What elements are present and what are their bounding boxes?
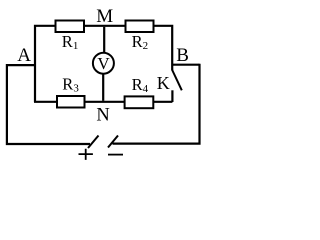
svg-text:R4: R4 <box>132 75 149 95</box>
svg-text:R3: R3 <box>62 75 79 95</box>
wire: R4 to switch contact <box>154 101 173 103</box>
wire: R2 right, corner down to switch pivot <box>154 26 172 71</box>
svg-text:R2: R2 <box>132 32 149 52</box>
battery plus sign <box>79 149 93 160</box>
voltmeter V circle <box>93 53 114 74</box>
svg-text:K: K <box>157 73 170 93</box>
svg-text:M: M <box>96 6 113 27</box>
wire: node A to left outer wire, down and along bottom to battery <box>7 65 90 144</box>
resistor R1 <box>56 21 85 33</box>
resistor R3 <box>57 96 85 108</box>
svg-text:R1: R1 <box>62 32 79 52</box>
svg-text:N: N <box>96 105 109 125</box>
resistor R4 <box>125 96 154 108</box>
battery positive plate (slanted) <box>88 136 99 149</box>
svg-text:V: V <box>97 54 110 73</box>
svg-text:B: B <box>176 45 189 66</box>
wire: right outer vertical and bottom right wire <box>113 64 200 144</box>
wire: left bridge vertical and top wire from A up to R1 <box>35 26 55 102</box>
wire: node B to right side <box>172 64 199 66</box>
wire: bottom of bridge from left corner to R3 <box>34 101 57 103</box>
wire: R3 to R4 through node N <box>85 101 125 103</box>
node N branch wire up to voltmeter <box>102 74 104 101</box>
battery minus sign <box>108 154 123 156</box>
switch K blade (open) <box>172 70 182 90</box>
resistor R2 <box>126 21 154 33</box>
node M branch wire down to voltmeter <box>103 27 105 53</box>
battery negative plate (slanted) <box>108 136 118 148</box>
svg-text:A: A <box>17 45 31 66</box>
wire: R1 to R2 through node M <box>85 25 125 27</box>
switch K bottom contact stub <box>171 90 173 102</box>
